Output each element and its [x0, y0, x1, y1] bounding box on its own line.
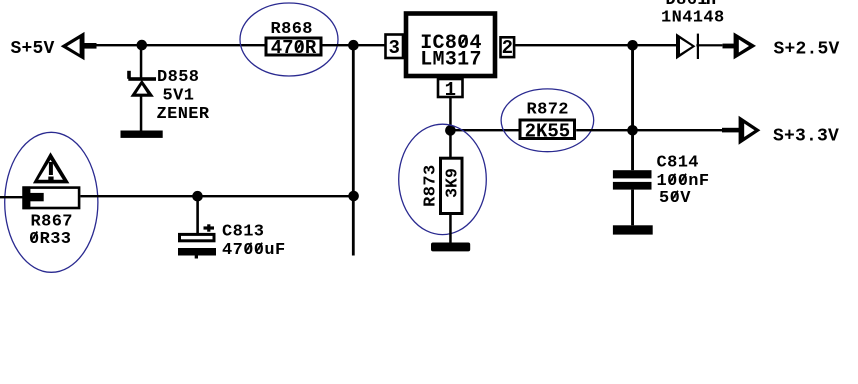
wire diode to arrow	[696, 44, 722, 46]
wire into R867	[0, 196, 23, 198]
resistor R873	[441, 158, 463, 213]
net label S+3.3V	[773, 126, 839, 146]
svg-text:3: 3	[388, 37, 399, 59]
highlight ellipse around R867	[5, 132, 98, 272]
wire C814 bottom	[631, 190, 634, 226]
wire top rail left	[96, 44, 265, 46]
wire R867 to C813 node	[81, 195, 355, 197]
label R873	[421, 164, 440, 206]
svg-text:50V: 50V	[659, 189, 691, 208]
resistor R872	[520, 120, 575, 139]
wire R873 to ground	[449, 214, 452, 244]
svg-text:5V1: 5V1	[163, 87, 195, 106]
ground bar under C814	[613, 225, 653, 234]
capacitor C814	[613, 170, 652, 189]
junction node top of vertical bus	[348, 40, 359, 51]
capacitor C813 (electrolytic)	[178, 234, 216, 258]
wire R868 to node	[323, 44, 386, 46]
pin 3 of IC804	[386, 35, 404, 60]
junction node at C814	[627, 125, 638, 136]
wire zener bottom	[140, 95, 143, 130]
label C814	[657, 154, 699, 173]
value 4700uF	[222, 241, 286, 260]
value 5V1	[163, 87, 195, 106]
pin 2 of IC804	[501, 37, 515, 59]
zener diode D858	[127, 71, 156, 97]
IC U804 regulator body	[406, 14, 495, 77]
label R872	[527, 100, 569, 119]
value 3K9	[442, 168, 461, 198]
junction node output	[627, 40, 638, 51]
wire C814 top	[631, 45, 634, 170]
svg-text:4700uF: 4700uF	[222, 241, 286, 260]
junction node ADJ	[445, 125, 456, 136]
value LM317	[420, 49, 482, 72]
label C813	[222, 223, 264, 242]
wire node to R873	[449, 130, 452, 158]
label D858	[157, 68, 199, 87]
net label S+2.5V	[774, 40, 840, 60]
svg-text:3K9: 3K9	[442, 168, 461, 198]
svg-text:C814: C814	[657, 154, 699, 173]
svg-text:R872: R872	[527, 100, 569, 119]
wire R872 to node	[576, 129, 632, 131]
svg-text:R873: R873	[421, 164, 440, 206]
label D861* (cut off at top)	[666, 0, 719, 10]
wire zener top	[140, 45, 143, 78]
value 1N4148	[661, 8, 725, 27]
value 100nF	[657, 172, 710, 191]
wire pin1 down	[449, 97, 452, 131]
svg-text:470R: 470R	[271, 37, 317, 59]
svg-text:S+2.5V: S+2.5V	[774, 40, 840, 60]
wire node to diode	[633, 44, 677, 46]
value 470R	[271, 37, 317, 59]
svg-text:C813: C813	[222, 223, 264, 242]
highlight ellipse around R873	[399, 124, 487, 234]
svg-text:2: 2	[502, 37, 513, 59]
warning triangle symbol	[33, 152, 70, 183]
resistor R868	[266, 38, 321, 55]
label ZENER	[157, 105, 210, 124]
highlight ellipse around R872	[501, 89, 594, 152]
junction node at D858 tap	[137, 40, 148, 51]
connector arrow S+2.5V	[723, 32, 757, 59]
ground bar under R873	[431, 243, 470, 252]
resistor R867 (fusible)	[22, 186, 79, 209]
svg-text:S+5V: S+5V	[11, 39, 55, 59]
connector arrow S+3.3V	[722, 116, 760, 145]
label IC804	[420, 32, 482, 55]
wire vertical bus	[352, 45, 355, 256]
junction node at C813	[192, 191, 203, 202]
connector arrow S+5V	[61, 32, 97, 60]
highlight ellipse around R868	[240, 3, 338, 76]
svg-text:R867: R867	[31, 213, 73, 232]
wire node to arrow 3.3V	[633, 129, 723, 131]
wire C813 top	[196, 196, 199, 233]
junction node on vertical bus	[348, 191, 359, 202]
wire ADJ to R872	[451, 129, 519, 131]
value 50V	[659, 189, 691, 208]
svg-text:D858: D858	[157, 68, 199, 87]
diode D861	[676, 33, 699, 59]
svg-text:LM317: LM317	[420, 49, 482, 72]
svg-text:S+3.3V: S+3.3V	[773, 126, 839, 146]
wire pin2 to output node	[515, 44, 633, 46]
svg-text:2K55: 2K55	[525, 121, 571, 143]
label R868	[271, 20, 313, 39]
svg-text:0R33: 0R33	[29, 230, 71, 249]
pin 1 of IC804	[438, 79, 463, 101]
svg-text:ZENER: ZENER	[157, 105, 210, 124]
svg-text:1N4148: 1N4148	[661, 8, 725, 27]
ground bar under D858	[121, 131, 163, 138]
value 2K55	[525, 121, 571, 143]
polarity plus sign C813	[204, 224, 215, 231]
label R867	[31, 213, 73, 232]
net label S+5V	[11, 39, 55, 59]
value 0R33	[29, 230, 71, 249]
